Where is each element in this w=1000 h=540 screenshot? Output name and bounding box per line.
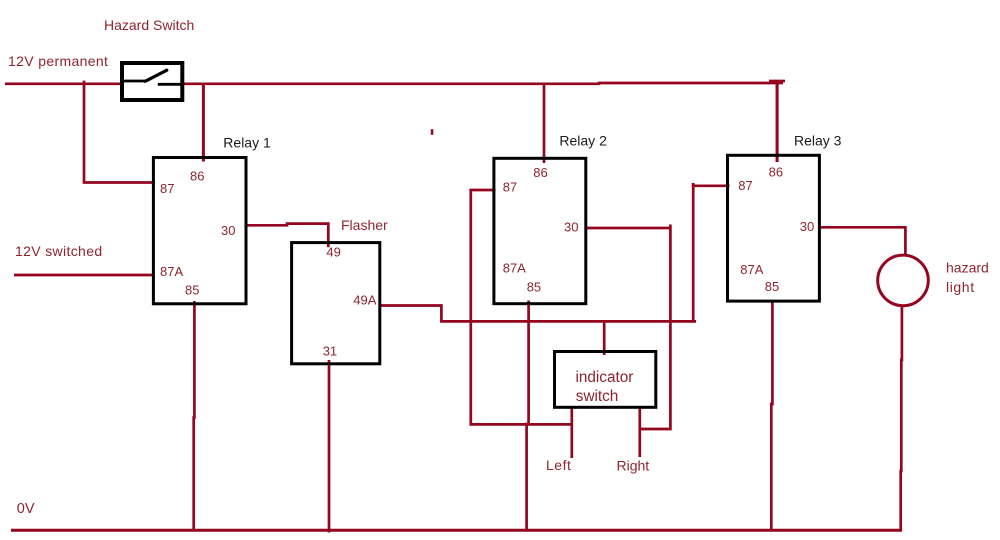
svg-text:86: 86 <box>769 165 783 180</box>
svg-text:87: 87 <box>738 178 752 193</box>
svg-text:indicator: indicator <box>576 369 634 386</box>
svg-text:86: 86 <box>533 165 547 180</box>
svg-text:Flasher: Flasher <box>341 217 388 233</box>
svg-text:12V switched: 12V switched <box>15 243 102 259</box>
stray mark near top middle <box>431 129 434 135</box>
wire: flasher pin 31 to 0V rail <box>328 360 331 533</box>
wire: indicator switch Right leg <box>638 407 641 457</box>
svg-text:85: 85 <box>765 279 779 294</box>
wire: bus drop to relay 2 pin 86 <box>543 83 546 163</box>
svg-text:Hazard Switch: Hazard Switch <box>104 17 194 33</box>
wire: 12V switched feed to relay 1 pin 87A <box>14 274 155 277</box>
svg-text:85: 85 <box>527 279 541 294</box>
svg-text:87A: 87A <box>740 262 763 277</box>
wire: relay 2 pin 30 down to indicator switch right leg <box>640 225 671 430</box>
svg-text:Relay 2: Relay 2 <box>559 133 607 149</box>
wire: relay 2 pin 87 down and across to indicator switch left leg <box>469 189 495 192</box>
wire: indicator switch Left leg <box>570 407 573 458</box>
svg-text:87: 87 <box>160 181 174 196</box>
wire: relay 3 pin 85 to 0V rail <box>771 300 772 530</box>
wire: 12V permanent bus, right of hazard switch to relay 3 drop <box>184 82 784 86</box>
relay U1 body <box>153 158 246 304</box>
svg-text:hazard: hazard <box>946 259 989 275</box>
wire: 49A net drop to indicator switch top pin <box>603 321 606 355</box>
svg-text:Relay 3: Relay 3 <box>794 132 842 148</box>
svg-text:85: 85 <box>185 282 199 297</box>
wire: flasher pin 49A net to relay 3 junction <box>379 306 696 322</box>
svg-text:86: 86 <box>190 169 204 184</box>
wire: relay 2 pin 85 to 0V rail <box>527 301 529 531</box>
hazard switch right contact <box>158 83 182 86</box>
svg-text:Right: Right <box>617 457 650 473</box>
svg-text:Left: Left <box>546 457 571 473</box>
svg-text:light: light <box>946 279 975 295</box>
relay U2 body <box>494 158 586 303</box>
svg-text:31: 31 <box>323 343 337 358</box>
svg-text:87A: 87A <box>160 264 183 279</box>
svg-text:0V: 0V <box>17 501 35 517</box>
wire: relay 2 pin 87 vertical and run to indicator switch left leg <box>471 189 572 424</box>
wire: 12V permanent bus, left of hazard switch <box>5 82 121 85</box>
wire: relay 2 pin 30 across <box>585 227 671 230</box>
flasher unit body <box>292 243 380 364</box>
hazard switch SW1 box <box>122 63 182 100</box>
wire: overdraw nub at relay 3 pin 87 corner <box>692 183 695 187</box>
svg-text:30: 30 <box>800 219 814 234</box>
wire: bus drop to relay 1 pin 87 <box>84 81 155 183</box>
wire: relay 3 pin 30 to hazard light <box>818 227 905 254</box>
hazard switch blade (open) <box>145 70 167 81</box>
wire: 49A net up to relay 3 pin 87 <box>693 186 729 323</box>
indicator switch body <box>555 352 656 408</box>
svg-text:Relay 1: Relay 1 <box>223 134 271 150</box>
hazard switch left contact <box>124 80 145 83</box>
hazard light lamp <box>878 255 929 306</box>
svg-text:87A: 87A <box>503 260 526 275</box>
wire: overdrawn end cap of 12V bus <box>769 80 785 83</box>
wire: relay 1 pin 85 to 0V rail <box>192 301 195 530</box>
svg-text:30: 30 <box>564 219 578 234</box>
svg-text:30: 30 <box>221 223 235 238</box>
relay U3 body <box>728 155 820 301</box>
wire: 0V rail <box>11 529 902 532</box>
wire: bus drop to relay 1 pin 86 <box>202 83 205 162</box>
svg-text:49A: 49A <box>353 293 376 308</box>
wire: hazard light to 0V rail <box>901 305 902 530</box>
svg-text:49: 49 <box>326 245 340 260</box>
svg-text:switch: switch <box>576 388 619 405</box>
svg-text:12V permanent: 12V permanent <box>8 53 108 69</box>
wire: relay 1 pin 30 to flasher pin 49 <box>245 224 328 248</box>
svg-text:87: 87 <box>503 180 517 195</box>
wire: bus drop to relay 3 pin 86 <box>776 82 779 163</box>
